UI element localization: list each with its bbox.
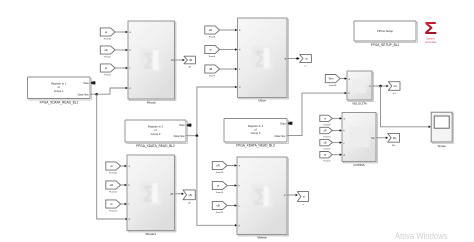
svg-text:From2: From2 [104,56,111,59]
svg-text:uR: uR [171,59,174,62]
svg-text:VELOCITA: VELOCITA [352,101,367,105]
svg-text:uR: uR [216,164,219,168]
System Generator token (Xilinx logo) [424,18,437,44]
from tag From16 [212,161,237,174]
svg-text:From10: From10 [109,172,117,175]
wire Rhoab1 out to goto uB [175,193,184,196]
svg-text:uB: uB [188,193,191,197]
terminator on Data of BL1 [90,81,95,84]
wire VELOCITA out to goto w1 [372,85,389,88]
terminator on Data of BL2 [186,124,191,127]
subsystem VELOCITA [347,71,373,105]
svg-text:Me: Me [393,136,397,140]
from tag From20 [320,152,342,163]
svg-text:w1: w1 [393,84,397,88]
svg-text:Group 3: Group 3 [251,131,261,135]
wire Rhoab out to goto uR [175,59,185,62]
from tag From19 [320,127,342,138]
svg-text:From24: From24 [329,84,337,87]
subsystem COPPIA [342,113,377,167]
from tag From2 [100,46,128,59]
register FPGA_XDATA_READ_BL1 [28,77,92,105]
svg-text:Data New: Data New [275,135,286,138]
wire node C to Scope [381,86,431,128]
svg-text:of: of [58,85,60,89]
from tag From6 [205,26,238,39]
svg-text:uR: uR [323,130,326,133]
wire node A down to Rhoab1 in4 [97,94,128,220]
svg-text:Data: Data [280,122,286,125]
svg-text:uR: uR [104,48,107,52]
wire COPPIA out to goto Me [376,137,388,140]
svg-text:Mtheta: Mtheta [257,235,267,239]
from tag From3 [100,64,128,77]
node C junction [379,85,382,88]
goto si [297,192,308,206]
svg-text:uB: uB [323,142,326,145]
subsystem Mtheta [237,157,288,239]
subsystem Rhoab [128,21,176,104]
svg-text:COPPIA: COPPIA [353,163,364,167]
svg-text:From32: From32 [104,38,112,41]
svg-text:uR: uR [110,183,113,187]
svg-text:From21: From21 [324,149,332,151]
wire BL1 Data New to node A [90,93,97,95]
svg-text:From19: From19 [324,137,332,139]
node B junction [196,134,199,137]
from tag From21 [320,139,342,150]
from tag From7 [205,65,238,78]
svg-text:of: of [254,127,256,131]
svg-text:uB: uB [216,204,219,208]
wire node B up to IAbve in4 [197,86,238,136]
wire BL2 Data New to node B [186,135,197,137]
goto uR [184,56,196,68]
block FPGA_SETUP_BL1 [354,21,418,47]
svg-text:Group 1: Group 1 [54,89,64,93]
svg-text:IAbve: IAbve [258,98,266,102]
svg-text:uR: uR [188,67,191,69]
register FPGA_XDATA_READ_BL2 [125,120,188,148]
svg-text:Scope: Scope [437,144,446,148]
from tag From32 [100,28,128,41]
goto ia [300,55,312,68]
svg-text:FPGA_SETUP_BL1: FPGA_SETUP_BL1 [371,43,400,47]
svg-text:From4: From4 [209,55,216,58]
svg-text:From15: From15 [216,191,224,194]
svg-text:Register In 1: Register In 1 [51,82,67,86]
svg-text:of: of [154,128,156,132]
svg-text:Rhoab: Rhoab [147,100,156,104]
wire Mtheta out to goto si [287,194,298,197]
svg-text:FPGA Setup: FPGA Setup [377,29,393,33]
svg-text:From16: From16 [216,171,224,174]
from tag From13 [106,200,127,213]
svg-text:Wm: Wm [329,77,335,81]
from tag From18 [320,115,342,126]
svg-text:uR: uR [209,28,212,32]
scope Scope [431,112,453,148]
from tag From24 [325,75,347,88]
from tag From17 [212,201,237,214]
svg-text:System: System [426,36,435,40]
svg-text:Σ: Σ [424,18,437,38]
svg-text:Attiva Windows: Attiva Windows [395,231,448,241]
wire node B down to Mtheta in4 [197,136,237,227]
from tag From12 [106,181,127,194]
from tag From10 [106,162,127,175]
svg-text:From7: From7 [209,75,216,78]
wire BL3 Data New to VELOCITA in2 [287,92,347,136]
goto w1 [388,82,400,95]
svg-text:From20: From20 [324,161,332,163]
svg-text:Generator: Generator [425,40,437,44]
svg-text:From12: From12 [109,191,117,194]
from tag From15 [212,181,237,194]
wire node A to Rhoab in4 [97,87,128,95]
wire IAbve out to goto ia [287,57,300,60]
svg-text:Data: Data [83,82,89,85]
from tag From4 [205,45,238,58]
register FPGA_XDATA_READ_BL3 [224,119,289,148]
svg-text:uB: uB [170,193,173,196]
svg-text:Data: Data [179,124,185,127]
terminator on Data of BL3 [287,122,292,125]
subsystem IAbve [238,18,289,102]
svg-text:uB: uB [209,67,212,71]
node A junction [95,93,98,96]
svg-text:Register In 3: Register In 3 [248,124,264,128]
svg-text:Data New: Data New [78,93,89,96]
svg-text:Group 2: Group 2 [151,132,161,136]
svg-text:w: w [324,117,326,120]
svg-text:FPGA_XDATA_READ_BL3: FPGA_XDATA_READ_BL3 [236,143,275,147]
svg-text:From3: From3 [104,74,111,77]
svg-text:w: w [369,85,371,88]
svg-text:From6: From6 [209,36,216,39]
svg-text:FPGA_XDATA_READ_BL1: FPGA_XDATA_READ_BL1 [40,101,79,105]
svg-text:Data New: Data New [174,135,185,138]
svg-text:FPGA_XDATA_READ_BL2: FPGA_XDATA_READ_BL2 [136,144,175,148]
svg-text:Rhoab1: Rhoab1 [145,232,156,236]
svg-text:From17: From17 [216,211,224,214]
svg-text:From13: From13 [109,210,117,213]
goto uB [183,190,195,205]
svg-text:Register In 2: Register In 2 [148,125,164,129]
subsystem Rhoab1 [127,155,176,236]
svg-text:uR: uR [189,58,192,62]
svg-text:From18: From18 [324,124,332,126]
goto Me [388,133,400,147]
